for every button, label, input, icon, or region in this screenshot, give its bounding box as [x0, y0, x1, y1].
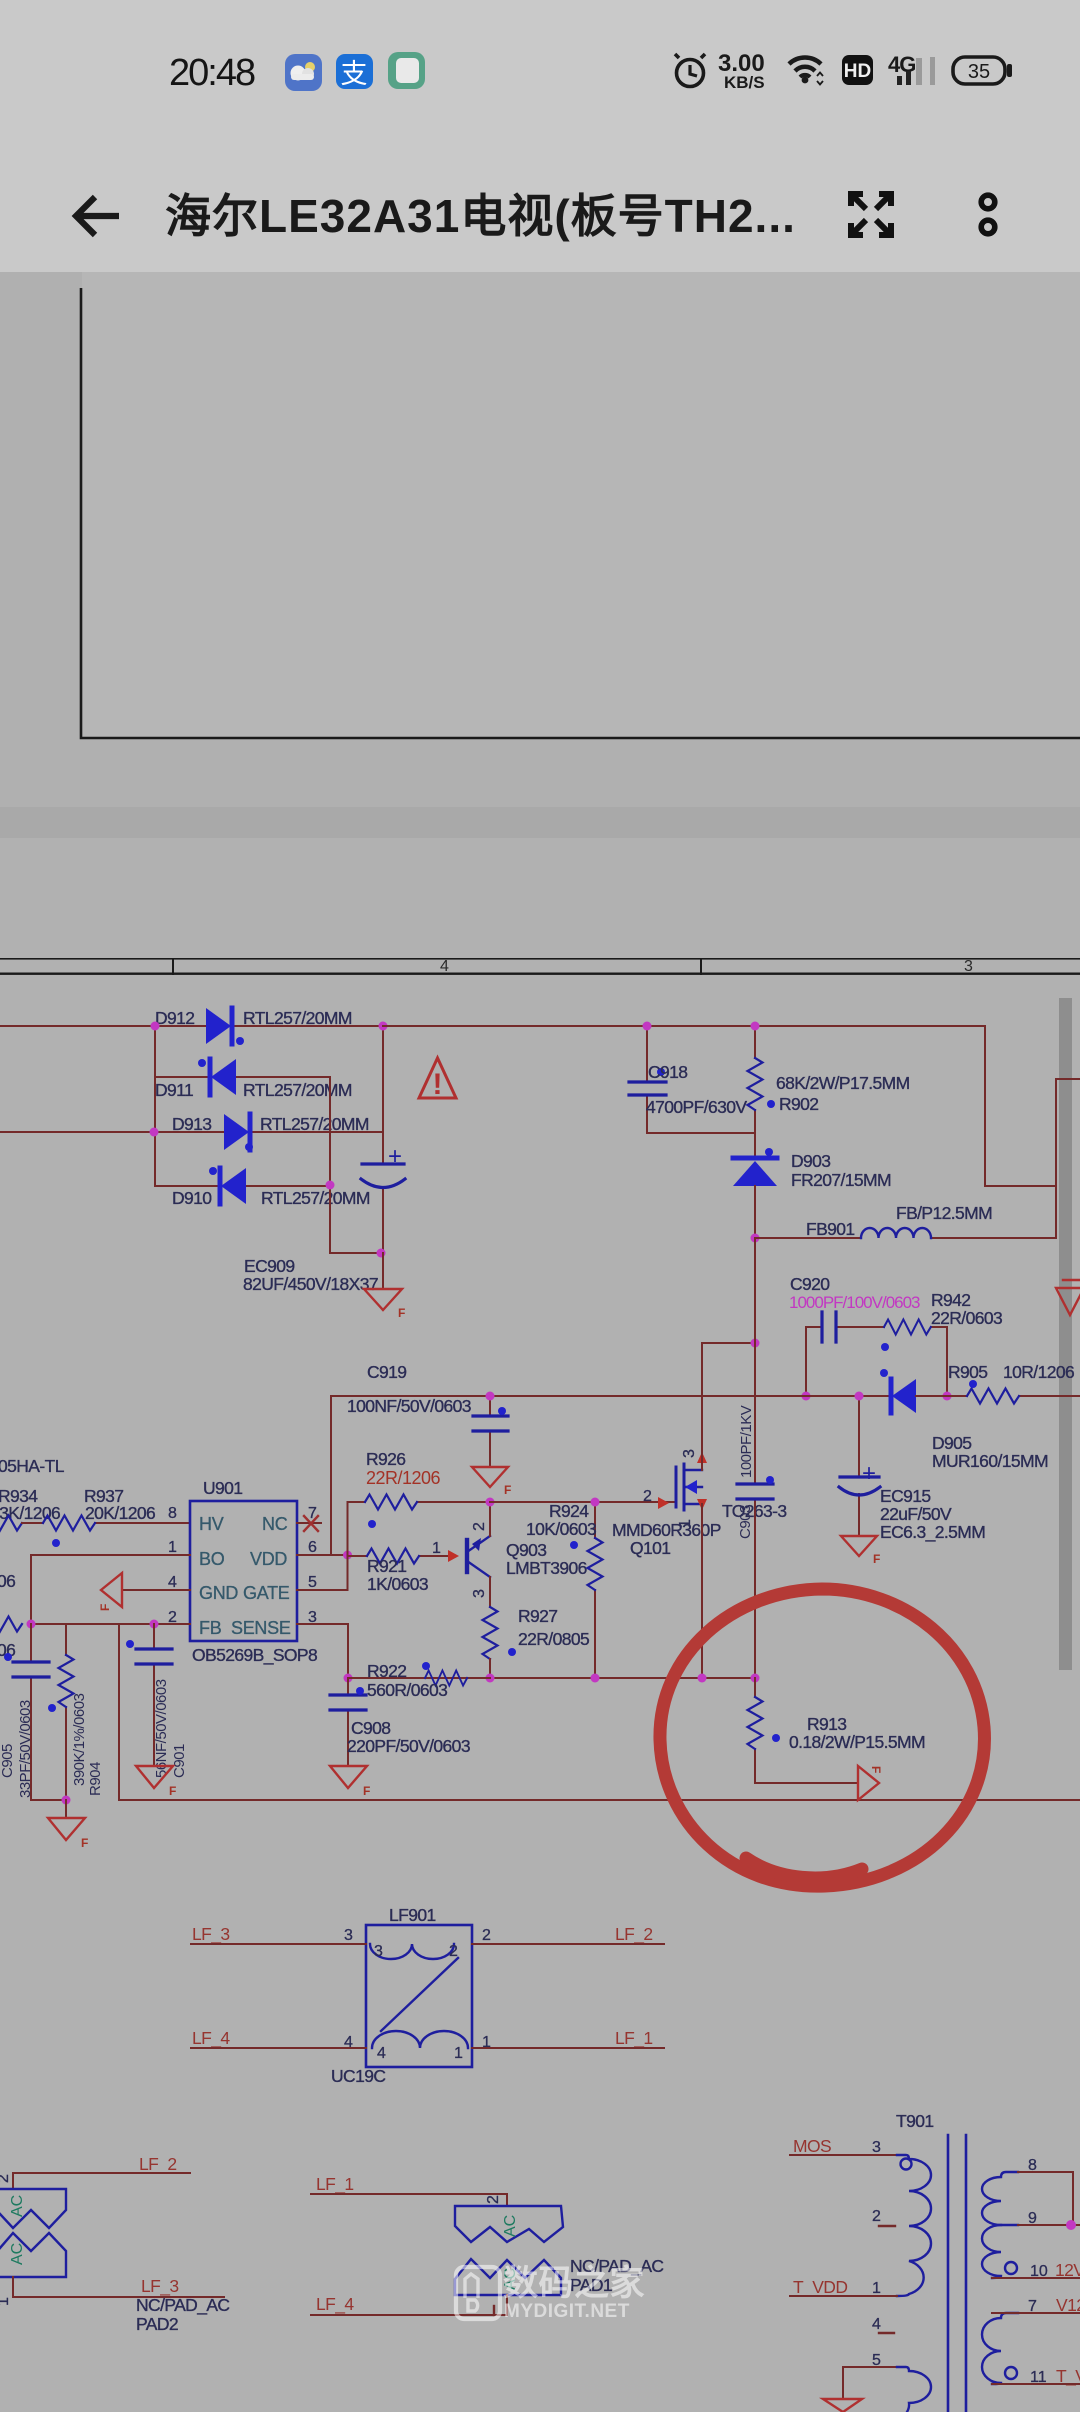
resistor R902	[748, 1026, 910, 1157]
svg-text:RTL257/20MM: RTL257/20MM	[261, 1188, 370, 1208]
svg-text:35: 35	[968, 61, 990, 83]
label fragment 06 upper	[0, 1571, 15, 1591]
status net speed text	[718, 50, 765, 92]
wire net LF_4 lower	[311, 2294, 507, 2315]
wire top rail	[383, 1025, 985, 1027]
pin 5 T901	[843, 2352, 897, 2399]
status bar app icon weather	[285, 54, 322, 91]
node D903 bottom	[751, 1234, 760, 1243]
svg-text:1: 1	[454, 2045, 463, 2062]
svg-text:AC: AC	[9, 2243, 26, 2265]
status HD badge	[842, 55, 873, 85]
node C919 top	[486, 1392, 495, 1401]
pin 1 Q903 arrow	[432, 1540, 459, 1562]
svg-text:390K/1%/0603: 390K/1%/0603	[71, 1693, 88, 1786]
svg-text:LMBT3906: LMBT3906	[506, 1558, 587, 1578]
status 4G and signal bars	[888, 52, 935, 85]
wire pin5 GATE	[297, 1589, 348, 1591]
watermark logo	[456, 2267, 500, 2319]
svg-text:4700PF/630V: 4700PF/630V	[646, 1097, 747, 1117]
svg-text:R924: R924	[549, 1501, 589, 1521]
capacitor EC909	[243, 1026, 405, 1294]
svg-text:1: 1	[432, 1540, 441, 1557]
scrollbar	[1059, 998, 1072, 1670]
wire net LF_3	[191, 1924, 366, 1945]
svg-text:D912: D912	[155, 1008, 194, 1028]
node drain junction	[751, 1339, 760, 1348]
pin 5	[308, 1574, 317, 1591]
diode D903	[733, 1148, 891, 1238]
wire net T_VDD pin 1	[790, 2277, 897, 2298]
svg-text:3: 3	[964, 958, 973, 975]
svg-text:22R/0805: 22R/0805	[518, 1629, 589, 1649]
svg-text:0.18/2W/P15.5MM: 0.18/2W/P15.5MM	[789, 1732, 925, 1752]
wire pin 9	[1018, 2210, 1080, 2227]
svg-text:MUR160/15MM: MUR160/15MM	[932, 1451, 1048, 1471]
ground EC915	[841, 1536, 880, 1566]
svg-text:LF901: LF901	[389, 1905, 436, 1925]
svg-text:R922: R922	[367, 1661, 406, 1681]
svg-text:1000PF/100V/0603: 1000PF/100V/0603	[789, 1293, 920, 1312]
svg-text:F: F	[873, 1552, 880, 1566]
resistor fragment left edge	[0, 1617, 22, 1632]
ground pin5	[823, 2399, 862, 2412]
node C918 top	[643, 1022, 652, 1031]
pin 4	[168, 1574, 177, 1591]
label 05HA-TL	[0, 1456, 65, 1476]
wire net LF_1	[472, 2028, 664, 2049]
svg-text:100PF/1KV: 100PF/1KV	[738, 1405, 755, 1478]
svg-text:C908: C908	[351, 1718, 390, 1738]
capacitor C908	[330, 1678, 470, 1766]
svg-text:2: 2	[872, 2208, 881, 2225]
node FB rail left	[27, 1620, 36, 1629]
svg-text:4: 4	[168, 1574, 177, 1591]
svg-text:4: 4	[377, 2045, 386, 2062]
wire pin7 NC	[297, 1516, 321, 1531]
filter LF901	[331, 1905, 472, 2086]
node EC915 top	[855, 1392, 864, 1401]
svg-text:2: 2	[485, 2195, 502, 2204]
svg-text:FB/P12.5MM: FB/P12.5MM	[896, 1203, 992, 1223]
svg-text:22uF/50V: 22uF/50V	[880, 1504, 952, 1524]
wire pin 7 net V12	[992, 2295, 1080, 2315]
svg-text:3: 3	[872, 2139, 881, 2156]
svg-text:MOS: MOS	[793, 2136, 831, 2156]
svg-text:1: 1	[168, 1539, 177, 1556]
svg-text:LF_4: LF_4	[192, 2028, 230, 2049]
wire net LF_4	[191, 2028, 366, 2049]
wire pin2 FB rail	[31, 1623, 190, 1625]
svg-text:2: 2	[0, 2174, 12, 2183]
sheet zone border	[0, 958, 1080, 975]
node source rail d	[698, 1674, 707, 1683]
svg-text:RTL257/20MM: RTL257/20MM	[243, 1008, 352, 1028]
svg-text:F: F	[81, 1836, 88, 1850]
capacitor C905	[0, 1624, 66, 1800]
wire pin1 BO	[31, 1555, 190, 1624]
wire net LF_2	[472, 1924, 664, 1945]
svg-text:4: 4	[440, 958, 449, 975]
resistor R927	[483, 1606, 590, 1678]
pin 2 LF901	[482, 1927, 491, 1944]
svg-text:+: +	[862, 1460, 876, 1487]
node R942 right	[943, 1392, 952, 1401]
svg-text:10K/0603: 10K/0603	[526, 1519, 596, 1539]
svg-text:BO: BO	[199, 1549, 225, 1569]
wire Q903 collector up	[489, 1502, 491, 1536]
svg-text:56NF/50V/0603: 56NF/50V/0603	[153, 1679, 170, 1778]
wire left input top	[0, 1025, 155, 1027]
svg-text:3: 3	[344, 1927, 353, 1944]
node left bus mid	[150, 1128, 159, 1137]
wire D911/D910 vertical	[330, 1077, 381, 1253]
svg-text:C920: C920	[790, 1274, 830, 1294]
resistor R924	[526, 1501, 603, 1678]
title expand icon	[851, 194, 891, 235]
node R904 bottom	[62, 1796, 71, 1805]
svg-text:R902: R902	[779, 1094, 818, 1114]
svg-text:2: 2	[482, 1927, 491, 1944]
status battery	[953, 57, 1012, 84]
svg-text:22R/1206: 22R/1206	[366, 1468, 441, 1488]
transistor Q101 MOSFET	[612, 1449, 721, 1558]
svg-text:海尔LE32A31电视(板号TH2...: 海尔LE32A31电视(板号TH2...	[165, 190, 796, 242]
svg-text:FR207/15MM: FR207/15MM	[791, 1170, 891, 1190]
svg-text:SENSE: SENSE	[231, 1618, 291, 1638]
pin 6	[308, 1539, 317, 1556]
wire FB riser	[118, 1624, 120, 1800]
T901 secondary winding top	[982, 2172, 1018, 2278]
svg-text:C901: C901	[171, 1744, 188, 1778]
node source rail a	[344, 1674, 353, 1683]
power arrow F left	[98, 1573, 122, 1611]
pin 2	[168, 1609, 177, 1626]
capacitor C918	[629, 1026, 755, 1133]
node source rail b	[486, 1674, 495, 1683]
wire source rail	[348, 1677, 755, 1679]
node left bus top	[151, 1022, 160, 1031]
T901 lower winding	[897, 2367, 931, 2412]
T901 primary winding	[897, 2155, 931, 2296]
svg-text:33PF/50V/0603: 33PF/50V/0603	[17, 1700, 34, 1798]
wire VDD riser	[330, 1396, 332, 1555]
svg-text:3: 3	[681, 1449, 698, 1458]
svg-text:R913: R913	[807, 1714, 846, 1734]
svg-text:PAD2: PAD2	[136, 2314, 178, 2334]
svg-text:F: F	[869, 1766, 883, 1773]
svg-text:C919: C919	[367, 1362, 406, 1382]
svg-text:5: 5	[308, 1574, 317, 1591]
svg-text:Q101: Q101	[630, 1538, 670, 1558]
resistor R913	[748, 1678, 925, 1783]
svg-text:支: 支	[341, 59, 368, 89]
capacitor EC915	[839, 1396, 985, 1543]
svg-text:C918: C918	[648, 1062, 687, 1082]
svg-text:10R/1206: 10R/1206	[1003, 1362, 1074, 1382]
node FB rail C901	[150, 1620, 159, 1629]
diode D910	[155, 1167, 370, 1208]
wire left input lower	[0, 1131, 155, 1133]
ground R904	[48, 1800, 88, 1850]
wire main mid rail	[331, 1395, 891, 1397]
svg-text:D905: D905	[932, 1433, 971, 1453]
resistor R934	[0, 1486, 60, 1531]
svg-text:HD: HD	[844, 61, 871, 82]
svg-text:+: +	[388, 1143, 402, 1170]
svg-text:MYDIGIT.NET: MYDIGIT.NET	[504, 2301, 630, 2322]
svg-text:LF_3: LF_3	[141, 2276, 179, 2297]
svg-text:1: 1	[872, 2280, 881, 2297]
resistor R904	[48, 1624, 104, 1800]
watermark text	[503, 2264, 645, 2322]
diode D913	[155, 1114, 383, 1151]
svg-text:AC: AC	[9, 2195, 26, 2217]
svg-text:EC915: EC915	[880, 1486, 931, 1506]
node R924 top	[591, 1498, 600, 1507]
svg-text:R904: R904	[87, 1762, 104, 1796]
wire left vertical bus	[154, 1026, 156, 1186]
node source rail c	[591, 1674, 600, 1683]
svg-text:C905: C905	[0, 1744, 16, 1778]
svg-text:GATE: GATE	[243, 1583, 290, 1603]
svg-text:100NF/50V/0603: 100NF/50V/0603	[347, 1396, 471, 1416]
svg-text:EC909: EC909	[244, 1256, 295, 1276]
resistor R926	[348, 1449, 491, 1528]
wire pin 11 net T_V	[992, 2366, 1080, 2387]
svg-text:LF_2: LF_2	[139, 2154, 177, 2175]
wire Q903 emitter down	[489, 1577, 491, 1607]
ground EC909	[364, 1253, 405, 1320]
node EC909 bottom	[377, 1249, 386, 1258]
title menu dots	[981, 195, 995, 234]
node C920 left	[802, 1392, 811, 1401]
svg-text:R905: R905	[948, 1362, 987, 1382]
title text	[165, 190, 796, 242]
svg-text:OB5269B_SOP8: OB5269B_SOP8	[192, 1645, 317, 1666]
node VDD R921 junction	[343, 1551, 352, 1560]
status bar app icon green	[388, 52, 425, 89]
svg-text:6: 6	[308, 1539, 317, 1556]
svg-text:06: 06	[0, 1571, 15, 1591]
preview page border	[81, 288, 1080, 738]
svg-text:LF_1: LF_1	[316, 2174, 354, 2195]
pin 3	[308, 1609, 317, 1626]
svg-text:T_VDD: T_VDD	[793, 2277, 847, 2298]
svg-text:F: F	[363, 1784, 370, 1798]
svg-text:D903: D903	[791, 1151, 830, 1171]
wire pin4 GND	[122, 1589, 190, 1591]
svg-text:VDD: VDD	[250, 1549, 287, 1569]
wire net LF_3 lower	[0, 2276, 224, 2306]
svg-text:2: 2	[643, 1488, 652, 1505]
svg-text:MMD60R360P: MMD60R360P	[612, 1520, 721, 1540]
wire pin6 VDD	[297, 1554, 348, 1556]
label TO263-3	[722, 1501, 787, 1521]
status bar app icon alipay	[336, 54, 373, 89]
svg-text:AC: AC	[502, 2215, 519, 2237]
wire bottom long rail	[119, 1799, 1080, 1801]
capacitor C919	[347, 1362, 508, 1467]
svg-text:RTL257/20MM: RTL257/20MM	[243, 1080, 352, 1100]
svg-text:LF_1: LF_1	[615, 2028, 653, 2049]
label NC/PAD_AC PAD2	[136, 2295, 229, 2334]
resistor R905	[947, 1362, 1080, 1404]
diode D911	[155, 1059, 352, 1100]
svg-text:4: 4	[872, 2316, 881, 2333]
svg-text:22R/0603: 22R/0603	[931, 1308, 1002, 1328]
pin 3 LF901	[344, 1927, 353, 1944]
T901 secondary winding bottom	[982, 2313, 1018, 2384]
svg-text:F: F	[169, 1784, 176, 1798]
wire right edge branch	[1056, 1079, 1080, 1238]
wire R926 R921 gate vertical	[347, 1502, 349, 1590]
wire pin 10 net 12V	[992, 2260, 1080, 2280]
varistor AC lower right	[455, 2259, 561, 2295]
ground C901	[136, 1766, 176, 1798]
svg-text:R926: R926	[366, 1449, 405, 1469]
ground C908	[330, 1766, 370, 1798]
wire net MOS pin 3	[790, 2136, 897, 2156]
pin 4 LF901	[344, 2034, 353, 2051]
svg-text:UC19C: UC19C	[331, 2066, 385, 2086]
power arrow F right	[858, 1766, 883, 1800]
svg-text:C903: C903	[737, 1505, 754, 1539]
svg-text:D913: D913	[172, 1114, 211, 1134]
resistor R937	[22, 1486, 190, 1547]
transistor Q903	[467, 1522, 587, 1598]
pin 4 T901 stub	[872, 2316, 894, 2333]
diode D905	[880, 1369, 1048, 1471]
varistor AC lower left	[0, 2233, 66, 2277]
pin 8	[168, 1505, 177, 1522]
wire net LF_1 lower	[311, 2174, 507, 2206]
svg-text:1: 1	[0, 2297, 12, 2306]
svg-text:20K/1206: 20K/1206	[85, 1503, 155, 1523]
warning triangle	[419, 1058, 456, 1101]
label NC/PAD_AC PAD1	[570, 2256, 663, 2295]
svg-text:82UF/450V/18X37: 82UF/450V/18X37	[243, 1274, 378, 1294]
svg-text:T901: T901	[896, 2111, 934, 2131]
svg-text:FB901: FB901	[806, 1219, 855, 1239]
svg-text:3: 3	[374, 1943, 383, 1960]
svg-text:3: 3	[471, 1589, 488, 1598]
wire net LF_2 lower	[0, 2154, 190, 2189]
svg-text:RTL257/20MM: RTL257/20MM	[260, 1114, 369, 1134]
svg-text:GND: GND	[199, 1583, 238, 1603]
capacitor C903	[737, 1238, 774, 1678]
pin 2 T901 stub	[872, 2208, 895, 2226]
wire rail R926 to gate	[490, 1501, 676, 1503]
node EC909 top	[379, 1022, 388, 1031]
svg-text:NC/PAD_AC: NC/PAD_AC	[136, 2295, 229, 2316]
svg-text:1K/0603: 1K/0603	[367, 1574, 428, 1594]
svg-text:D911: D911	[155, 1080, 193, 1100]
wire pin 8	[1018, 2157, 1073, 2225]
svg-text:HV: HV	[199, 1514, 224, 1534]
svg-text:2: 2	[449, 1943, 458, 1960]
svg-text:EC6.3_2.5MM: EC6.3_2.5MM	[880, 1522, 985, 1543]
svg-text:!: !	[433, 1068, 443, 1101]
status alarm icon	[675, 54, 705, 87]
node pin 9	[1066, 2220, 1076, 2230]
svg-text:220PF/50V/0603: 220PF/50V/0603	[347, 1736, 470, 1756]
pin 1	[168, 1539, 177, 1556]
svg-text:LF_2: LF_2	[615, 1924, 653, 1945]
svg-text:20:48: 20:48	[169, 52, 255, 94]
capacitor C901	[126, 1624, 188, 1778]
svg-text:FB: FB	[199, 1618, 222, 1638]
transformer T901	[896, 2111, 934, 2131]
annotation red circle	[660, 1589, 985, 1886]
svg-text:R927: R927	[518, 1606, 557, 1626]
svg-text:05HA-TL: 05HA-TL	[0, 1456, 65, 1476]
svg-text:LF_4: LF_4	[316, 2294, 354, 2315]
svg-text:560R/0603: 560R/0603	[367, 1680, 447, 1700]
wire pin3 SENSE	[297, 1624, 348, 1678]
status bar time	[169, 52, 255, 94]
wire Q101 drain	[702, 1343, 755, 1470]
resistor R922	[348, 1661, 490, 1700]
svg-text:2: 2	[471, 1522, 488, 1531]
resistor R921	[348, 1549, 448, 1595]
capacitor C920 and resistor R942 loop	[789, 1274, 1002, 1396]
fuse AC upper right	[455, 2206, 563, 2242]
ground C919	[472, 1467, 511, 1497]
svg-text:F: F	[98, 1604, 112, 1611]
node source rail e	[751, 1674, 760, 1683]
svg-text:F: F	[504, 1483, 511, 1497]
pin 2 Q101 arrow	[643, 1488, 669, 1509]
svg-text:LF_3: LF_3	[192, 1924, 230, 1945]
svg-text:68K/2W/P17.5MM: 68K/2W/P17.5MM	[776, 1073, 910, 1093]
ground arrow right edge	[1056, 1280, 1080, 1315]
label fragment 06 lower	[0, 1640, 15, 1660]
diode D912	[155, 1008, 383, 1045]
wire Q101 source	[701, 1504, 703, 1678]
svg-text:D910: D910	[172, 1188, 212, 1208]
status wifi icon	[789, 58, 823, 85]
svg-text:Q903: Q903	[506, 1540, 546, 1560]
inductor FB901	[755, 1203, 1056, 1239]
T901 core	[948, 2135, 966, 2412]
svg-text:数码之家: 数码之家	[503, 2264, 645, 2303]
svg-text:R921: R921	[367, 1556, 406, 1576]
node R902 top	[751, 1022, 760, 1031]
pin 7	[308, 1505, 317, 1522]
pin 1 LF901	[482, 2034, 491, 2051]
svg-text:NC: NC	[262, 1514, 288, 1534]
fuse AC upper left	[0, 2189, 66, 2228]
node D910 junction	[326, 1181, 335, 1190]
wire right drop	[985, 1026, 1056, 1186]
svg-text:F: F	[398, 1306, 405, 1320]
svg-text:4G: 4G	[888, 52, 915, 77]
title back arrow	[76, 197, 119, 235]
svg-text:KB/S: KB/S	[724, 73, 765, 92]
node R926 right	[486, 1498, 495, 1507]
svg-text:R942: R942	[931, 1290, 970, 1310]
svg-text:8: 8	[168, 1505, 177, 1522]
svg-text:U901: U901	[203, 1478, 242, 1498]
IC U901	[190, 1478, 317, 1666]
